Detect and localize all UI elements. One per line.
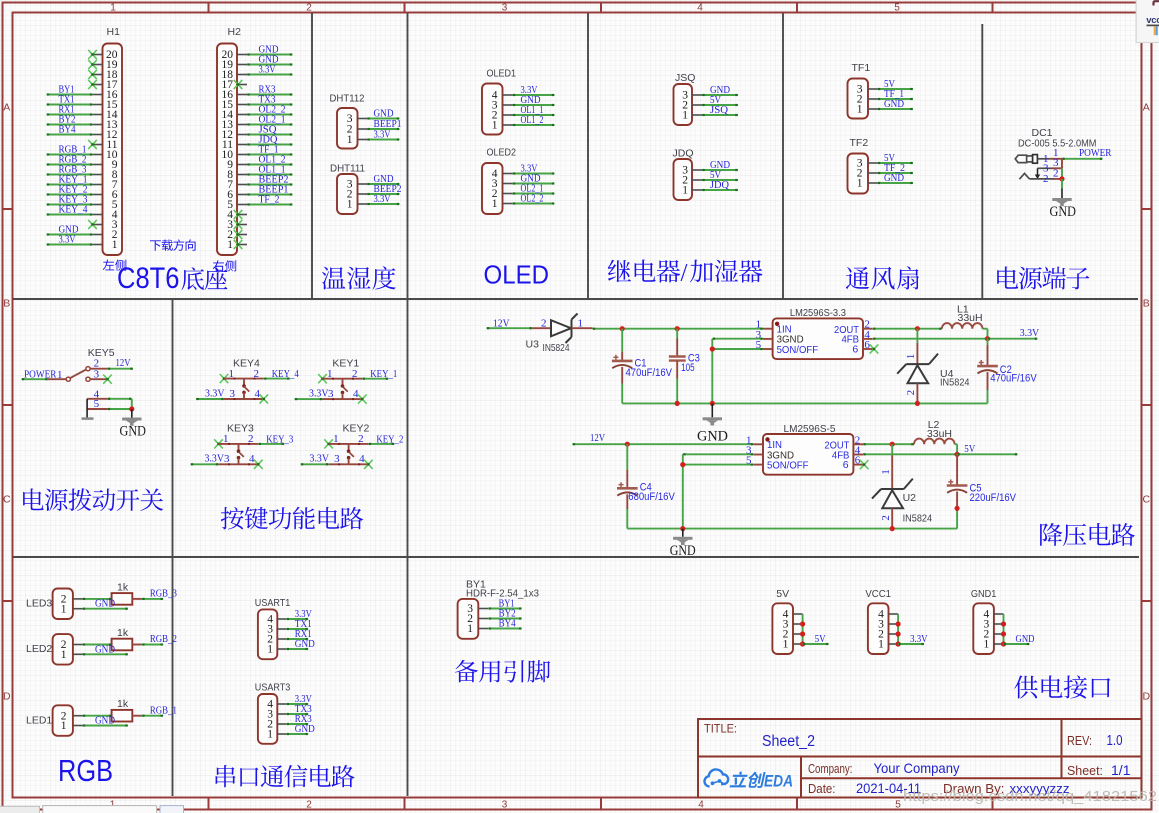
junction C3 bottom bbox=[675, 401, 680, 406]
wire buck2 ground vertical bbox=[682, 454, 684, 528]
wire net 5V output bbox=[957, 453, 1017, 455]
svg-text:U3: U3 bbox=[526, 338, 540, 350]
svg-text:GND: GND bbox=[95, 598, 115, 610]
svg-text:POWER: POWER bbox=[1079, 147, 1112, 159]
wire net OL2_1 at H2 pin 13 bbox=[247, 123, 293, 125]
LED connector LED1 name bbox=[26, 714, 52, 726]
connector OLED1 name label bbox=[487, 68, 517, 80]
junction buck1 gnd at pin5 bbox=[710, 346, 715, 351]
junction buck1 gnd bottom bbox=[710, 401, 715, 406]
KEY5 case ground bracket bbox=[82, 399, 94, 420]
wire down to GND from DC1 bbox=[1061, 179, 1063, 198]
wire net JDQ at H2 pin 11 bbox=[247, 143, 293, 145]
no-connect X at LM2596S-3.3 pin 6 bbox=[870, 344, 879, 353]
svg-text:6: 6 bbox=[852, 343, 858, 355]
wire 12V to LM2596S-5 pin 1 bbox=[572, 443, 753, 445]
wire net 3.3V at USART1 pin 4 bbox=[286, 618, 308, 620]
connector JDQ pin numbers bbox=[682, 165, 688, 197]
button KEY1 bottom contact bar pins 3-4 bbox=[323, 388, 363, 400]
junctions on GND1 common bbox=[1001, 621, 1006, 646]
svg-text:GND: GND bbox=[1016, 633, 1035, 645]
wire net 3.3V output bbox=[988, 338, 1038, 340]
no-connect X at H1 pin 17 bbox=[88, 80, 97, 89]
no-connect X at KEY4 pin 1 bbox=[220, 374, 229, 383]
net label JDQ bbox=[259, 133, 278, 145]
button KEY3 name bbox=[227, 423, 254, 435]
label 下载方向 bbox=[150, 239, 196, 250]
svg-text:OL1_2: OL1_2 bbox=[521, 114, 544, 126]
svg-text:5: 5 bbox=[894, 3, 900, 14]
connector TF1 pin numbers bbox=[857, 84, 863, 116]
svg-text:33uH: 33uH bbox=[958, 312, 983, 324]
KEY5 pin 3 contact bbox=[86, 368, 108, 381]
net label 3.3V bbox=[521, 162, 538, 174]
junction at C4 top bbox=[625, 442, 630, 447]
diode U4 IN5824 bbox=[897, 329, 938, 404]
wire LM2596S-3.3 pin 2 OUT to L1 bbox=[873, 328, 942, 330]
net label GND bbox=[521, 172, 541, 184]
button KEY1 name bbox=[332, 357, 359, 369]
no-connect X at H2 pin 2 bbox=[234, 230, 243, 239]
wire net KEY_3 at H1 pin 5 bbox=[47, 203, 93, 205]
net label TF_1 bbox=[884, 88, 904, 100]
wire net BEEP2 at DHT111 pin 2 bbox=[367, 193, 400, 195]
svg-text:OL2_2: OL2_2 bbox=[521, 192, 544, 204]
wire net 3.3V to KEY4 pin 3 bbox=[196, 398, 224, 400]
svg-text:LED2: LED2 bbox=[26, 643, 52, 655]
svg-text:5ON/OFF: 5ON/OFF bbox=[767, 460, 809, 472]
svg-text:LED1: LED1 bbox=[26, 714, 52, 726]
wire net OL1_1 at OLED1 pin 2 bbox=[513, 114, 555, 116]
svg-text:1: 1 bbox=[57, 369, 63, 381]
svg-text:5V: 5V bbox=[815, 633, 826, 645]
resistor 1k value label bbox=[117, 581, 129, 593]
IC LM2596S-3.3 name bbox=[790, 307, 846, 319]
svg-text:KEY_1: KEY_1 bbox=[370, 368, 397, 380]
svg-text:2: 2 bbox=[306, 3, 312, 14]
svg-text:2: 2 bbox=[1053, 168, 1059, 180]
section divider vertical x=172.5 rows B-C bbox=[172, 299, 174, 557]
svg-text:1: 1 bbox=[682, 185, 688, 197]
connector TF1 pin stubs bbox=[868, 89, 878, 109]
connector OLED1 pin stubs bbox=[503, 95, 513, 125]
title block Sheet label bbox=[1067, 764, 1103, 778]
net label KEY_4 bbox=[59, 203, 88, 215]
net label TX1 bbox=[59, 93, 75, 105]
net label OL1_2 bbox=[259, 153, 286, 165]
wire net BY2 at BY1 pin 2 bbox=[488, 617, 521, 619]
svg-text:D: D bbox=[1143, 691, 1151, 703]
svg-text:5ON/OFF: 5ON/OFF bbox=[777, 344, 819, 356]
wire LED1 pin 2 to resistor bbox=[83, 715, 112, 717]
connector DHT111 name label bbox=[330, 163, 365, 175]
wire net 3.3V at H2 pin 18 bbox=[247, 73, 293, 75]
no-connect X at H1 pin 20 bbox=[88, 50, 97, 59]
connector OLED1 pin numbers bbox=[492, 90, 498, 132]
svg-text:1: 1 bbox=[682, 110, 688, 122]
button KEY3 top contact bar pins 1-2 bbox=[219, 433, 259, 445]
svg-text:IN5824: IN5824 bbox=[903, 512, 933, 524]
svg-text:RGB: RGB bbox=[58, 753, 113, 788]
net label GND bbox=[884, 98, 904, 110]
wire net RX3 at H2 pin 16 bbox=[247, 93, 293, 95]
svg-text:1: 1 bbox=[229, 368, 235, 380]
net label KEY_3 bbox=[266, 433, 293, 445]
net label RX3 bbox=[295, 713, 312, 725]
button KEY1 top contact bar pins 1-2 bbox=[323, 368, 363, 380]
connector JDQ body bbox=[674, 159, 693, 200]
svg-text:1/1: 1/1 bbox=[1111, 762, 1131, 778]
connector TF2 name label bbox=[850, 137, 869, 149]
svg-text:1: 1 bbox=[347, 134, 353, 146]
svg-text:105: 105 bbox=[681, 362, 695, 374]
wire net OL1_2 at OLED1 pin 1 bbox=[513, 124, 555, 126]
connector USART1 name label bbox=[255, 597, 291, 609]
wire LM2596S-3.3 pin 5 ON/OFF bbox=[712, 348, 763, 350]
svg-text:JDQ: JDQ bbox=[673, 148, 694, 160]
svg-text:3.3V: 3.3V bbox=[1020, 327, 1040, 339]
connector USART1 body bbox=[258, 609, 277, 659]
wire net 3.3V from VCC1 pin 1 bbox=[898, 643, 924, 645]
svg-text:GND: GND bbox=[295, 638, 315, 650]
wire net GND at H2 pin 19 bbox=[247, 63, 293, 65]
ground symbol GND at KEY5 bbox=[122, 418, 141, 426]
svg-text:GND1: GND1 bbox=[971, 588, 997, 600]
wire net KEY_2 at H1 pin 6 bbox=[47, 193, 93, 195]
net label BEEP2 bbox=[259, 173, 289, 185]
button KEY3 actuator bbox=[237, 444, 244, 464]
svg-text:1: 1 bbox=[492, 198, 498, 210]
svg-text:EDA: EDA bbox=[764, 772, 793, 791]
section title 继电器/加湿器 bbox=[608, 260, 763, 287]
ground symbol GND buck1 bbox=[703, 417, 722, 425]
wire net OL1_2 at H2 pin 9 bbox=[247, 163, 293, 165]
connector H1 name label bbox=[107, 26, 121, 38]
title block horizontal line under title row bbox=[698, 756, 1142, 758]
wire LM2596S-5 pin 2 OUT to L2 bbox=[863, 443, 914, 445]
section divider vertical row A x=588 bbox=[587, 13, 589, 299]
net label OL2_2 bbox=[521, 192, 544, 204]
wire net KEY_2 from KEY2 pin 2 bbox=[368, 443, 394, 445]
net label OL2_2 bbox=[259, 103, 286, 115]
section title 电源端子 bbox=[997, 267, 1089, 290]
net label 12V bbox=[116, 357, 131, 369]
connector H2 body bbox=[217, 44, 237, 256]
no-connect X at KEY3 pin 1 bbox=[214, 439, 223, 448]
GND1 pin stubs bbox=[994, 614, 1004, 644]
resistor 1k value label bbox=[117, 698, 129, 710]
net label 3.3V at buck1 output bbox=[1020, 327, 1040, 339]
wire net 3.3V at OLED1 pin 4 bbox=[513, 94, 555, 96]
wire net GND at H2 pin 20 bbox=[247, 53, 293, 55]
connector BY1 name label bbox=[466, 579, 486, 591]
no-connect X at H1 pin 11 bbox=[88, 140, 97, 149]
net label 3.3V at KEY4 bbox=[205, 387, 225, 399]
svg-text:3.3V: 3.3V bbox=[205, 387, 225, 399]
net label 12V at buck 2 input bbox=[590, 432, 605, 444]
wire net GND from LED2 pin 1 bbox=[83, 653, 129, 655]
no-connect X at KEY3 pin 4 bbox=[254, 460, 263, 469]
KEY5 pin 1 lead and pivot bbox=[48, 369, 70, 382]
net label BY4 bbox=[59, 123, 76, 135]
svg-text:1: 1 bbox=[267, 644, 273, 656]
net label OL2_1 bbox=[259, 113, 286, 125]
net label RX1 bbox=[59, 103, 75, 115]
wire net GND at OLED1 pin 3 bbox=[513, 104, 555, 106]
bottom ui box 1 bbox=[0, 806, 40, 813]
svg-text:KEY2: KEY2 bbox=[343, 423, 370, 435]
svg-text:1: 1 bbox=[880, 469, 892, 475]
net label OL1_1 bbox=[521, 104, 544, 116]
net label KEY_2 bbox=[376, 433, 403, 445]
svg-text:RGB_1: RGB_1 bbox=[150, 704, 177, 716]
no-connect X at KEY2 pin 4 bbox=[364, 460, 373, 469]
connector H2 pin numbers bbox=[222, 49, 234, 251]
svg-text:1: 1 bbox=[905, 354, 917, 360]
net label RGB_2 bbox=[59, 153, 87, 165]
DC1 switch arrow bbox=[1035, 168, 1040, 179]
wire net POWER from DC1 pin 1 bbox=[1062, 158, 1103, 160]
net label JSQ bbox=[710, 104, 728, 116]
junction buck2 output node bbox=[955, 452, 960, 457]
section title 串口通信电路 bbox=[216, 765, 355, 788]
connector TF2 body bbox=[848, 154, 869, 194]
svg-text:1: 1 bbox=[110, 3, 116, 14]
junction at C3 top bbox=[675, 326, 680, 331]
svg-text:GND: GND bbox=[120, 423, 147, 439]
LED connector LED1 body bbox=[53, 705, 73, 736]
net label RX3 bbox=[259, 83, 276, 95]
DC1 barrel jack symbol bbox=[1015, 155, 1050, 164]
svg-text:1: 1 bbox=[267, 729, 273, 741]
net label 5V at 5V bbox=[815, 633, 826, 645]
junction KEY5 ground node bbox=[129, 406, 134, 411]
KEY5 pin 4 lead bbox=[87, 388, 107, 400]
LED3 pin stubs bbox=[73, 599, 83, 609]
LED1 pin stubs bbox=[73, 716, 83, 726]
section divider horizontal row A/B bbox=[13, 298, 1138, 300]
net label BY1 bbox=[499, 597, 515, 609]
title block Drawn By value xxxyyyzzz bbox=[1010, 781, 1070, 796]
junction at C5 bottom lead bbox=[955, 506, 960, 511]
no-connect X at KEY1 pin 4 bbox=[358, 395, 367, 404]
svg-text:Company:: Company: bbox=[808, 762, 853, 776]
capacitor C3 labels bbox=[681, 353, 700, 375]
net label BY2 bbox=[499, 607, 516, 619]
svg-text:DHT111: DHT111 bbox=[330, 163, 365, 175]
wire net JDQ at JDQ pin 1 bbox=[702, 189, 738, 191]
svg-text:TF_2: TF_2 bbox=[259, 193, 280, 205]
svg-text:1k: 1k bbox=[117, 698, 129, 710]
section divider vertical row A x=982 bbox=[981, 24, 983, 299]
LED2 pin numbers bbox=[61, 639, 67, 661]
svg-text:USART3: USART3 bbox=[255, 682, 291, 694]
svg-text:IN5824: IN5824 bbox=[940, 377, 970, 389]
DC1 footprint label DC-005 5.5-2.0MM bbox=[1018, 138, 1097, 150]
watermark csdn url bbox=[903, 789, 1157, 805]
wire net JSQ at JSQ pin 1 bbox=[702, 114, 738, 116]
connector TF2 pin numbers bbox=[857, 158, 863, 190]
connector USART3 pin stubs bbox=[277, 704, 286, 734]
wire net 3.3V at DHT112 pin 1 bbox=[367, 138, 400, 140]
svg-text:Sheet_2: Sheet_2 bbox=[762, 733, 815, 750]
svg-text:OLED: OLED bbox=[484, 260, 550, 290]
svg-text:5: 5 bbox=[94, 398, 100, 410]
section divider horizontal row C/D bbox=[13, 556, 1139, 558]
button KEY3 bottom contact bar pins 3-4 bbox=[219, 453, 259, 465]
net label 3.3V at VCC1 bbox=[910, 633, 928, 645]
DC1 pin 3 lead bbox=[1037, 157, 1062, 174]
net label BEEP2 bbox=[374, 183, 402, 195]
junction at C1 top bbox=[620, 326, 625, 331]
connector TF1 name label bbox=[852, 62, 871, 74]
net label POWER at KEY5 bbox=[24, 368, 57, 380]
svg-text:1: 1 bbox=[61, 649, 67, 661]
resistor 1k for LED2 bbox=[112, 639, 133, 651]
svg-text:Sheet:: Sheet: bbox=[1067, 764, 1103, 778]
wire net GND at OLED2 pin 3 bbox=[513, 182, 555, 184]
net label 3.3V bbox=[59, 233, 76, 245]
connector BY1 body bbox=[458, 599, 479, 639]
svg-text:C: C bbox=[3, 494, 11, 506]
svg-text:6: 6 bbox=[843, 459, 849, 471]
svg-text:U2: U2 bbox=[903, 492, 917, 504]
net label OL1_2 bbox=[521, 114, 544, 126]
wire net GND at JDQ pin 3 bbox=[702, 169, 738, 171]
junction buck1 output node bbox=[985, 336, 990, 341]
net label 3.3V bbox=[374, 193, 391, 205]
wire net TF_1 at TF1 pin 2 bbox=[878, 98, 914, 100]
no-connect X at H1 pin 19 bbox=[88, 60, 97, 69]
connector OLED2 body bbox=[482, 163, 503, 214]
svg-text:GND: GND bbox=[95, 715, 115, 727]
svg-text:vcc: vcc bbox=[1146, 15, 1159, 26]
wire net OL2_2 at OLED2 pin 1 bbox=[513, 202, 555, 204]
wire net 5V at JSQ pin 2 bbox=[702, 104, 738, 106]
connector DHT112 pin stubs bbox=[358, 119, 368, 140]
wire net OL1_1 at H2 pin 8 bbox=[247, 173, 293, 175]
LED connector LED2 body bbox=[53, 634, 73, 665]
svg-text:GND: GND bbox=[884, 172, 904, 184]
svg-text:1: 1 bbox=[578, 317, 584, 329]
wire net KEY_4 at H1 pin 4 bbox=[47, 213, 93, 215]
svg-text:1k: 1k bbox=[117, 581, 129, 593]
KEY5 lever arm bbox=[70, 370, 86, 379]
wire LM2596S-5 pin 5 ON/OFF bbox=[683, 464, 754, 466]
button KEY1 actuator bbox=[341, 379, 348, 399]
svg-text:DHT112: DHT112 bbox=[330, 93, 365, 105]
connector H2 name label bbox=[228, 26, 242, 38]
net label OL1_1 bbox=[259, 163, 286, 175]
wire LM2596S-3.3 pin 4 FB to output bbox=[873, 338, 988, 340]
wire LED3 pin 2 to resistor bbox=[83, 598, 112, 600]
section title RGB bbox=[58, 753, 113, 788]
svg-text:1: 1 bbox=[327, 368, 333, 380]
diode U2 labels bbox=[903, 492, 933, 524]
wire net 3.3V at USART3 pin 4 bbox=[286, 703, 308, 705]
wire net GND at H1 pin 2 bbox=[47, 233, 93, 235]
svg-text:4: 4 bbox=[697, 3, 703, 14]
net label TF_2 bbox=[259, 193, 280, 205]
svg-text:GND: GND bbox=[1050, 204, 1077, 220]
svg-text:1: 1 bbox=[878, 639, 884, 651]
connector TF1 body bbox=[848, 79, 869, 119]
wire net GND at DHT111 pin 3 bbox=[367, 183, 400, 185]
svg-text:REV:: REV: bbox=[1067, 734, 1092, 748]
svg-text:1: 1 bbox=[467, 623, 473, 635]
net label BY1 bbox=[59, 83, 75, 95]
connector DC1 name bbox=[1032, 127, 1053, 139]
net label RGB_3 bbox=[59, 163, 87, 175]
section divider vertical x=407.5 rows A-D bbox=[407, 13, 409, 299]
row letters left and right bbox=[3, 102, 1151, 703]
no-connect X at LM2596S-5 pin 6 bbox=[860, 460, 869, 469]
diode U2 IN5824 bbox=[872, 444, 913, 528]
button KEY4 actuator bbox=[242, 379, 249, 399]
wire net TF_1 at H2 pin 10 bbox=[247, 153, 293, 155]
wire L1 to output node bbox=[983, 329, 988, 339]
button KEY4 top contact bar pins 1-2 bbox=[224, 368, 264, 380]
net label GND at LED3 bbox=[95, 598, 115, 610]
button KEY2 top contact bar pins 1-2 bbox=[329, 433, 369, 445]
connector OLED2 name label bbox=[487, 147, 517, 159]
svg-text:KEY5: KEY5 bbox=[88, 347, 115, 359]
junction U2 anode bottom bbox=[890, 526, 895, 531]
svg-text:3.3V: 3.3V bbox=[310, 453, 330, 465]
wire diode U3 to LM2596S-3.3 pin 1 IN bbox=[593, 328, 764, 330]
no-connect X at KEY4 pin 4 bbox=[260, 394, 269, 403]
net label BEEP1 bbox=[374, 118, 402, 130]
wire net TF_2 at H2 pin 5 bbox=[247, 203, 293, 205]
no-connect X at H1 pin 18 bbox=[88, 70, 97, 79]
svg-text:3: 3 bbox=[502, 3, 508, 14]
net label GND bbox=[521, 94, 541, 106]
section divider vertical row A x=312 bbox=[311, 13, 313, 299]
capacitor C4 labels bbox=[628, 481, 675, 503]
wire net GND at JSQ pin 3 bbox=[702, 94, 738, 96]
svg-text:HDR-F-2.54_1x3: HDR-F-2.54_1x3 bbox=[466, 587, 539, 599]
net label TX1 bbox=[295, 618, 312, 630]
connector TF2 pin stubs bbox=[868, 163, 878, 183]
svg-text:RGB_2: RGB_2 bbox=[150, 633, 177, 645]
IC U1 LM2596S-3.3 bbox=[756, 318, 873, 359]
svg-text:OLED1: OLED1 bbox=[487, 68, 517, 80]
net label KEY_4 bbox=[272, 368, 299, 380]
connector 5V name bbox=[776, 588, 789, 600]
net label 5V bbox=[884, 78, 895, 90]
inductor L2 33uH bbox=[914, 439, 955, 445]
title block Company value Your Company bbox=[874, 760, 960, 776]
button KEY2 actuator bbox=[347, 444, 354, 464]
junctions on 5V common bbox=[800, 621, 805, 646]
wire net GND at TF1 pin 1 bbox=[878, 108, 914, 110]
resistor 1k for LED1 bbox=[112, 710, 133, 722]
svg-text:VCC1: VCC1 bbox=[865, 588, 891, 600]
svg-text:220uF/16V: 220uF/16V bbox=[970, 492, 1017, 504]
no-connect X at H2 pin 4 bbox=[234, 210, 243, 219]
capacitor C4 680uF/16V bbox=[617, 444, 638, 528]
wire net TX3 at H2 pin 15 bbox=[247, 103, 293, 105]
net label GND bbox=[710, 84, 730, 96]
inductor L1 labels bbox=[957, 303, 983, 324]
svg-text:GND: GND bbox=[95, 643, 115, 655]
title block REV value 1.0 bbox=[1107, 733, 1123, 749]
svg-text:5V: 5V bbox=[776, 588, 789, 600]
BY1 footprint label HDR-F-2.54_1x3 bbox=[466, 587, 539, 599]
no-connect X at H1 pin 3 bbox=[88, 220, 97, 229]
wire net 5V from 5V pin 1 bbox=[803, 643, 829, 645]
title block TITLE label bbox=[704, 724, 737, 736]
